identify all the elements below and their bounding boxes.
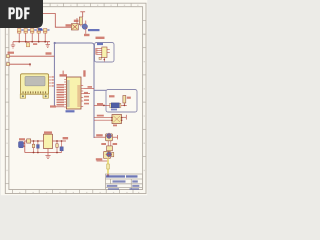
cap C7 [32, 144, 34, 147]
pdf badge [0, 0, 43, 28]
motor bottom marks [113, 125, 117, 127]
jack right pins [24, 143, 26, 147]
file text [108, 188, 119, 190]
wire power rail top [25, 140, 44, 142]
ground regulator [45, 156, 50, 159]
speaker small cap [99, 57, 101, 59]
wire cap bank rail [13, 41, 50, 43]
buzzer LS1 [71, 24, 78, 30]
resistor R4 bottom pin [107, 174, 109, 177]
crystal bottom label [111, 109, 117, 111]
transistor Q1 arrow [86, 27, 87, 28]
wire motor out [122, 116, 127, 118]
lcd pin labels [52, 76, 54, 87]
S2 side component [112, 152, 114, 156]
net label S2 [96, 158, 103, 160]
crystal junctions [103, 105, 125, 107]
label R3 right [113, 143, 118, 145]
crystal Y1 plate right [119, 103, 121, 107]
net label in crystal box [109, 95, 115, 97]
capacitor bank labels [21, 29, 49, 30]
net label at P1 start [8, 52, 15, 54]
revision cell text [132, 180, 138, 182]
net label +5V [63, 137, 69, 139]
crystal Y1 body [111, 103, 119, 108]
border ticks bottom [12, 190, 133, 194]
resistor R3 [107, 146, 113, 151]
lcd foot left [20, 94, 25, 98]
motor out end tick [125, 115, 127, 120]
resistor R4 vertical [107, 159, 109, 175]
label C6 [127, 97, 131, 99]
wire regulator out [53, 140, 67, 142]
cap C10 stub [27, 42, 29, 43]
sheet border outer [5, 3, 146, 193]
pdf badge letter P [9, 7, 15, 19]
button S1 cap [107, 133, 112, 138]
speaker ic pin labels [95, 48, 97, 55]
button S2 cross [106, 151, 112, 157]
crystal Y1 plate left [110, 103, 112, 107]
net label bottom left of mcu [50, 105, 56, 107]
wire mcu right y93.5 [83, 93, 90, 95]
label SP BT [97, 43, 103, 45]
wire mcu bottom left [56, 106, 64, 108]
crystal wires [94, 103, 127, 106]
power bar VCC [80, 12, 85, 17]
mcu bottom label [66, 110, 75, 112]
lcd foot right hole [45, 95, 47, 97]
bus branch to crystal box [94, 89, 106, 91]
wire motor in 2 [94, 119, 112, 121]
led D2 [60, 147, 63, 151]
label U2 [44, 131, 52, 133]
S1 right end tick [117, 135, 119, 139]
port P2 [7, 63, 10, 66]
buzzer top stub [76, 18, 78, 24]
number cell text [113, 180, 126, 182]
net label at P1 end [46, 52, 52, 54]
resistor R4 body [107, 164, 110, 169]
diode D1 [27, 139, 31, 143]
speaker block box [95, 43, 115, 63]
buzzer label [74, 20, 79, 22]
speaker ic U3 [102, 47, 107, 58]
label ACTIVE BUZZER [88, 29, 100, 31]
wire power rail bottom [25, 152, 62, 154]
vertical net label right of mcu [83, 70, 85, 76]
wire S2 left [97, 160, 109, 162]
pdf badge letter D [16, 7, 23, 19]
wire P2 end drop [29, 64, 31, 66]
date text [107, 185, 118, 187]
net label motor wires [97, 115, 104, 117]
regulator ground stub [47, 149, 49, 156]
lcd pin dashes [23, 91, 47, 93]
label R3 left [101, 143, 106, 145]
capacitor bank C1-C5 [18, 29, 47, 34]
cap C8 stubs [37, 141, 39, 153]
net label SPK 1 [96, 37, 105, 39]
junction dots out rail [56, 140, 62, 153]
junction dots power rail [33, 140, 39, 153]
net label crystal wire [97, 103, 103, 105]
junction dots [18, 41, 46, 43]
mcu right pins [81, 86, 83, 107]
mcu left pins [64, 80, 66, 108]
drawn by text [130, 188, 140, 190]
net label PWR [66, 24, 74, 26]
border ticks right [143, 21, 146, 157]
wire S1 right [113, 136, 118, 138]
lcd screen [25, 76, 45, 85]
net label SPK [84, 34, 90, 36]
motor M1 [112, 115, 122, 124]
lcd right pins [49, 77, 52, 86]
speaker ic right pins [107, 50, 110, 53]
buzzer pin marks [72, 24, 77, 29]
button S1 cross [106, 133, 112, 139]
margin zone labels [6, 5, 145, 194]
wire S1 left [94, 136, 106, 138]
ground (cap bank left) [11, 42, 15, 48]
speaker ic pins [96, 49, 104, 62]
cap C7 stubs [33, 141, 35, 153]
resistor R1 [79, 17, 82, 25]
lcd foot left hole [22, 95, 24, 97]
dc jack J1 [19, 142, 24, 148]
net label below rail [33, 43, 37, 45]
ink mute overlay [1, 0, 147, 195]
bus junction dot [54, 42, 56, 44]
wire mcu right y88.5 [83, 88, 94, 90]
title text [106, 175, 125, 177]
motor pin marks [111, 117, 122, 121]
pdf badge letter F [24, 7, 29, 19]
motor cross marks [113, 116, 120, 123]
sheet border inner [9, 7, 143, 190]
capacitor bank stubs [19, 33, 45, 42]
lcd foot right [43, 94, 48, 98]
crystal block box [106, 90, 137, 113]
resistor R3 stubs [108, 141, 111, 146]
border ticks top [50, 4, 131, 8]
blue label cap bank [38, 28, 42, 30]
wire jack riser [24, 141, 26, 153]
capacitor below rail C10 [26, 43, 29, 47]
capacitor C6 [123, 96, 126, 104]
bus line top and right [54, 43, 94, 138]
transistor Q1 leads [81, 21, 86, 34]
regulator U2 [44, 134, 53, 148]
net label S1 [96, 134, 103, 136]
junction P2 [29, 63, 31, 65]
cap C9 stubs [56, 141, 58, 153]
label J1 [19, 138, 25, 140]
cap C9 [56, 144, 58, 148]
wire port P2 [10, 63, 31, 65]
wire motor in 1 [94, 117, 112, 119]
wire port P1 [10, 55, 55, 57]
wire mcu top pin [63, 71, 64, 75]
transistor Q1 [82, 24, 87, 29]
mcu designator U1 [60, 74, 68, 76]
led stubs [61, 141, 63, 153]
speaker wire junction [104, 59, 106, 61]
lcd module LCD1 [21, 74, 49, 94]
mcu inner pin names [67, 80, 70, 107]
button S2 cap [107, 152, 112, 157]
net label wire y88.5 [88, 86, 93, 88]
border ticks left [5, 21, 9, 184]
wire VCC to buzzer stage [43, 14, 71, 28]
cap C8 [37, 145, 40, 149]
capacitor bank plates [17, 30, 47, 32]
sheet of text [132, 185, 139, 187]
button S1 [106, 134, 113, 141]
bus line vertical left [53, 43, 55, 106]
mcu left net labels [57, 84, 65, 106]
port P1 [7, 55, 10, 58]
mcu inner right text [77, 85, 80, 107]
mcu right net labels [84, 92, 89, 105]
title block [106, 174, 143, 190]
button S2 [104, 151, 111, 158]
mcu U1 [66, 77, 81, 109]
page background [1, 0, 147, 195]
title text 2 [126, 175, 138, 177]
ground (cap bank right) [46, 42, 50, 48]
